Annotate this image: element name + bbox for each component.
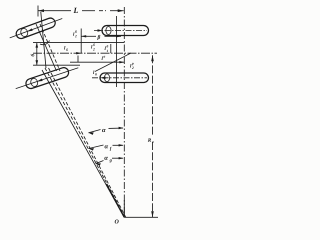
label L [73,8,78,13]
band middle dash-dot line [33,52,157,54]
tire front-left (steered) [8,14,64,42]
vertical extension x=81.2 [80,29,82,54]
label l_b band left [64,46,68,51]
middle line arrow right [76,52,81,54]
bundle dashed line 1 to O [45,68,124,216]
vehicle axis (vertical dash-dot) [123,7,125,217]
extension tick x=78 [77,56,79,63]
velocity diagonal at rear-right [95,53,131,72]
label R [148,138,154,143]
tire rear-right [92,73,149,83]
steep dashed line from front-left wheel [40,24,60,71]
arrow line y=62.2 to axis [70,61,124,63]
steep solid line from front-left wheel [36,24,57,71]
axis solid segment near O [123,200,125,217]
tire front-right [94,26,149,36]
extension line through right tires [116,16,118,87]
label alpha_f [105,145,112,151]
merged bundle stroke near O [106,184,124,217]
extension tick x=110.8 [110,44,112,53]
label b0 (rotated) [31,54,35,57]
tire rear-left [14,63,80,93]
kingpin line at steered wheel [41,12,46,68]
label l_b lower [93,71,97,76]
bundle dashed line 2 to O [49,68,126,217]
band top line [33,42,124,44]
label alpha [102,129,106,132]
dimension L line [38,9,124,12]
label l2_b band [91,43,95,50]
bundle solid line to O [42,70,124,217]
label l_a [102,56,106,60]
left track-width dimension [36,43,39,66]
label l1_b band [105,45,109,52]
turning radius R dimension [151,55,154,217]
beta dimension line with both arrows [81,35,121,37]
label l2_p [130,63,134,69]
label beta [97,35,100,40]
angle dim alpha [89,127,124,135]
label l2_b upper [73,30,77,37]
steer angle arc [40,41,50,45]
angle dim alpha_f [89,144,124,151]
label O center [115,220,119,224]
label alpha_g [104,157,111,163]
angle dim alpha_g [96,157,124,166]
bottom radius line from O [124,216,158,218]
dimension L left tick [37,6,39,17]
band bottom line [33,64,80,66]
